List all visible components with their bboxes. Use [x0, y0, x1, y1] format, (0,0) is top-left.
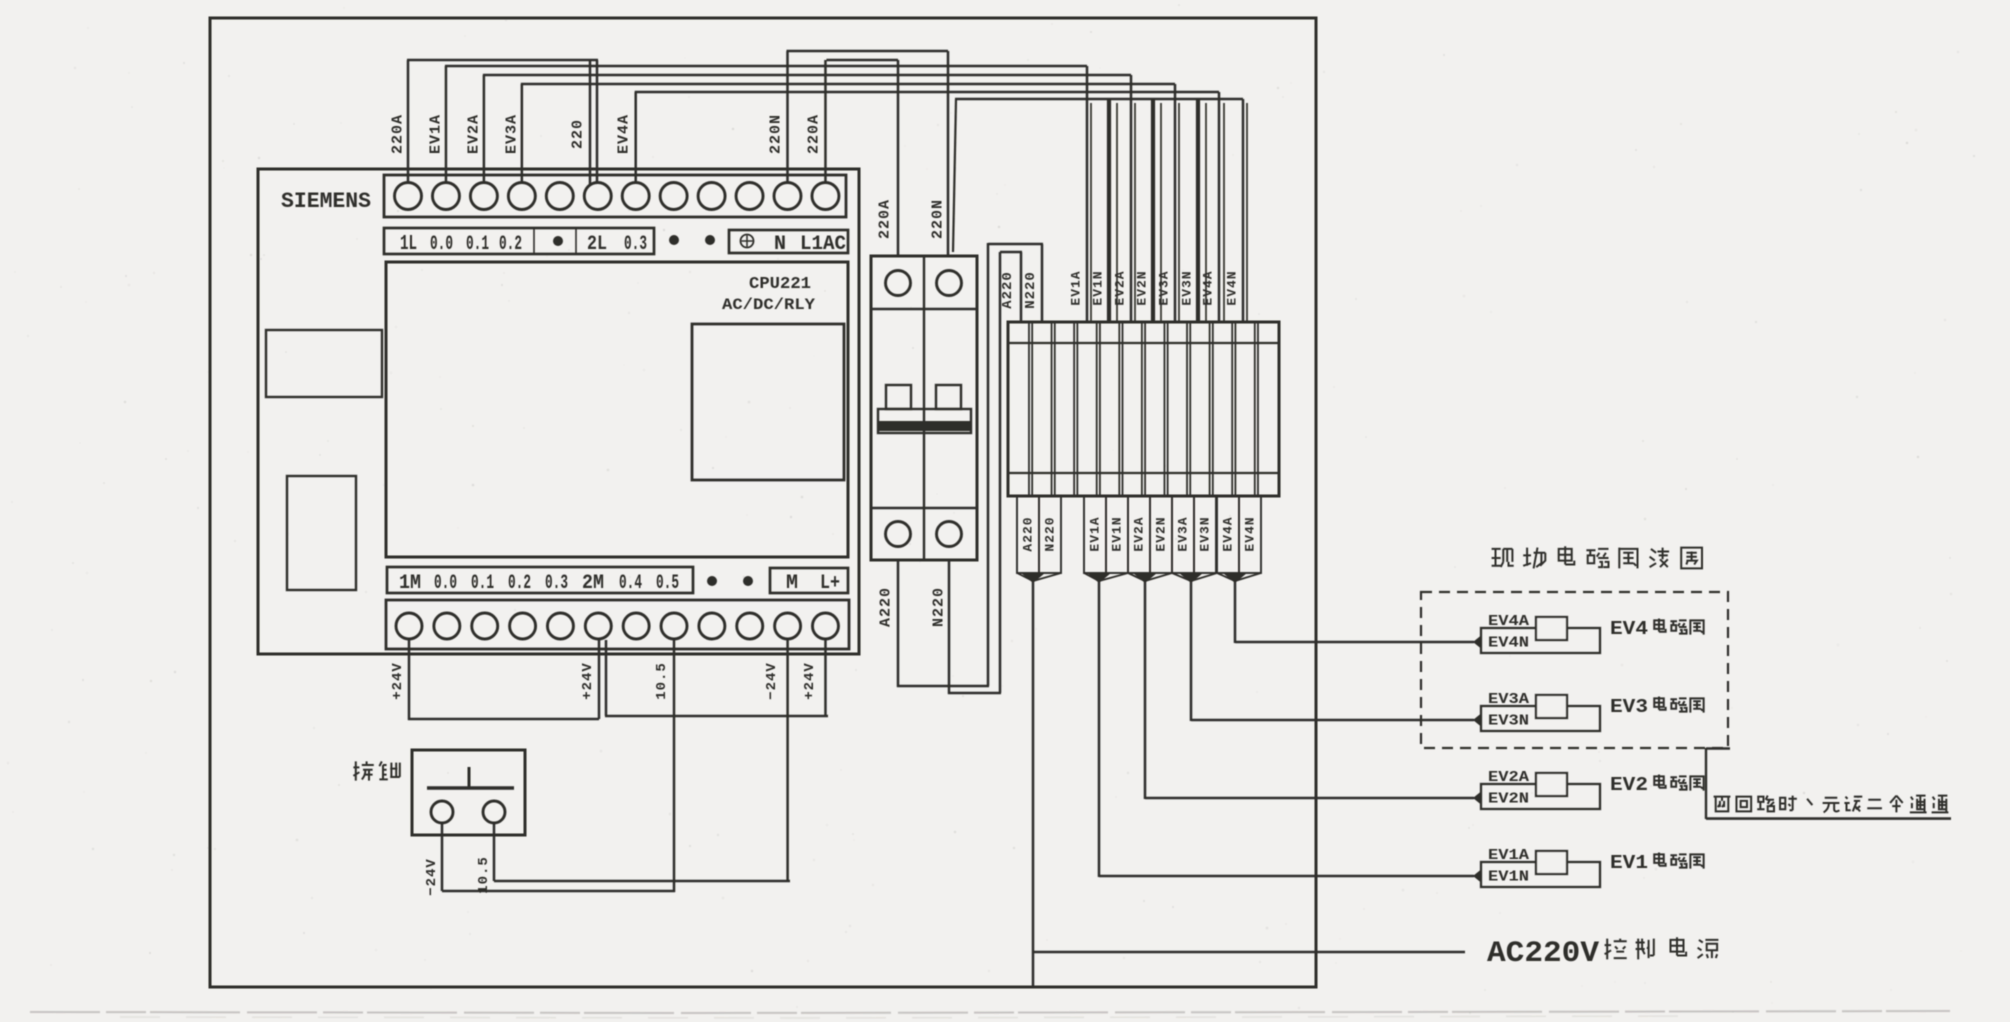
svg-text:EV3: EV3 — [1610, 696, 1648, 718]
svg-text:EV1A: EV1A — [1069, 270, 1084, 305]
svg-text:L+: L+ — [820, 572, 840, 595]
svg-text:EV1N: EV1N — [1488, 869, 1529, 886]
svg-text:0.5: 0.5 — [656, 572, 679, 595]
svg-text:0.1: 0.1 — [471, 572, 494, 595]
svg-text:EV4N: EV4N — [1225, 270, 1240, 305]
svg-text:EV1A: EV1A — [428, 114, 445, 154]
svg-text:EV4: EV4 — [1610, 618, 1648, 640]
svg-text:M: M — [786, 572, 798, 595]
svg-text:SIEMENS: SIEMENS — [281, 189, 371, 214]
svg-text:EV1N: EV1N — [1110, 516, 1125, 551]
svg-text:−24V: −24V — [424, 858, 440, 896]
svg-text:10.5: 10.5 — [476, 856, 492, 894]
svg-text:AC220V: AC220V — [1487, 937, 1599, 971]
svg-text:EV3A: EV3A — [1176, 516, 1191, 551]
svg-text:EV2N: EV2N — [1135, 270, 1150, 305]
svg-text:+24V: +24V — [580, 662, 596, 700]
svg-text:EV4A: EV4A — [1221, 516, 1236, 551]
svg-text:0.1: 0.1 — [466, 233, 489, 256]
svg-text:EV3N: EV3N — [1180, 270, 1195, 305]
svg-text:AC/DC/RLY: AC/DC/RLY — [722, 296, 815, 314]
svg-text:EV3A: EV3A — [504, 114, 521, 154]
svg-text:EV2N: EV2N — [1488, 791, 1529, 808]
svg-text:N220: N220 — [1023, 271, 1039, 309]
svg-text:2L: 2L — [587, 233, 607, 256]
svg-text:EV2: EV2 — [1610, 774, 1648, 796]
svg-text:220A: 220A — [390, 114, 407, 154]
svg-text:220A: 220A — [806, 114, 823, 154]
svg-text:+24V: +24V — [390, 662, 406, 700]
svg-text:1L: 1L — [400, 233, 417, 256]
svg-text:EV2A: EV2A — [466, 114, 483, 154]
svg-text:EV4A: EV4A — [1488, 613, 1529, 630]
svg-text:0.2: 0.2 — [499, 233, 522, 256]
svg-text:EV2N: EV2N — [1154, 516, 1169, 551]
svg-text:A220: A220 — [878, 587, 895, 627]
svg-text:L1AC: L1AC — [800, 233, 846, 256]
svg-text:A220: A220 — [1021, 516, 1036, 551]
svg-text:EV3N: EV3N — [1488, 713, 1529, 730]
svg-text:0.3: 0.3 — [545, 572, 568, 595]
svg-text:2M: 2M — [582, 572, 604, 595]
svg-text:EV1A: EV1A — [1088, 516, 1103, 551]
svg-text:EV2A: EV2A — [1113, 270, 1128, 305]
svg-text:EV1: EV1 — [1610, 852, 1648, 874]
svg-text:A220: A220 — [1000, 271, 1016, 309]
svg-text:EV4A: EV4A — [1201, 270, 1216, 305]
svg-text:EV4A: EV4A — [616, 114, 633, 154]
svg-text:10.5: 10.5 — [654, 662, 670, 700]
svg-text:EV4N: EV4N — [1488, 635, 1529, 652]
svg-text:220N: 220N — [768, 114, 785, 154]
svg-text:N220: N220 — [931, 587, 948, 627]
svg-text:CPU221: CPU221 — [749, 275, 811, 294]
svg-text:220: 220 — [570, 119, 587, 149]
svg-text:EV2A: EV2A — [1132, 516, 1147, 551]
svg-text:0.2: 0.2 — [508, 572, 531, 595]
svg-text:EV4N: EV4N — [1243, 516, 1258, 551]
svg-text:0.0: 0.0 — [434, 572, 457, 595]
svg-text:N: N — [774, 233, 786, 256]
svg-text:0.0: 0.0 — [430, 233, 453, 256]
svg-text:0.4: 0.4 — [619, 572, 642, 595]
svg-text:−24V: −24V — [764, 662, 780, 700]
svg-text:220N: 220N — [930, 199, 947, 239]
svg-text:1M: 1M — [399, 572, 421, 595]
svg-text:0.3: 0.3 — [624, 233, 647, 256]
svg-text:EV2A: EV2A — [1488, 769, 1529, 786]
svg-text:N220: N220 — [1043, 516, 1058, 551]
svg-text:EV1N: EV1N — [1091, 270, 1106, 305]
svg-text:+24V: +24V — [802, 662, 818, 700]
svg-text:EV3A: EV3A — [1157, 270, 1172, 305]
svg-text:EV3A: EV3A — [1488, 691, 1529, 708]
svg-text:EV1A: EV1A — [1488, 847, 1529, 864]
svg-text:220A: 220A — [877, 199, 894, 239]
svg-text:EV3N: EV3N — [1198, 516, 1213, 551]
